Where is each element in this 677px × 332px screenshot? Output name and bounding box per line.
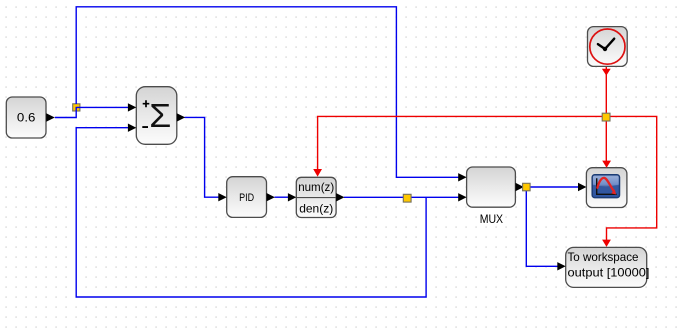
constant block 0.6 [6,97,46,138]
svg-text:den(z): den(z) [299,201,333,215]
PID input port arrow [218,193,226,201]
clock block [588,27,628,67]
num/den event input red arrow [313,169,322,177]
clock event output red arrow [602,69,611,76]
wire: num/den output to MUX input 2 [344,196,460,198]
wire: sum output to PID input [185,117,220,197]
MUX input 2 port arrow [458,193,466,201]
MUX block [467,167,516,226]
To workspace block [566,247,650,287]
num/den output port arrow [336,193,344,201]
wire: junction down then right to To workspace input [526,191,559,266]
wire: MUX output junction to scope input [530,186,580,188]
svg-text:0.6: 0.6 [17,111,36,125]
num/den input port arrow [288,193,296,201]
scope signal input port arrow [578,183,586,191]
MUX output port arrow [515,183,523,191]
split point junction (constant to sum / top wire) [73,104,80,111]
To workspace event input red arrow [602,240,611,247]
wire: red junction down to scope event input [605,121,607,162]
scope block [586,168,627,208]
svg-text:PID: PID [239,192,254,204]
wire: red junction left and down to num/den event input [318,116,603,169]
To workspace input port arrow [557,262,565,270]
wire: red junction right, down, left, down to To workspace event input [607,116,657,240]
output port arrow of constant [46,113,55,122]
wire: feedback loop from branch down, left, up to sum - input [76,128,426,297]
svg-text:num(z): num(z) [298,180,334,194]
PID block [227,177,267,218]
svg-text:MUX: MUX [480,212,503,226]
MUX input 1 port arrow [458,173,466,181]
sum + input port arrow [128,103,136,111]
junction at MUX output (scope / workspace split) [523,183,531,191]
svg-text:output [10000]: output [10000] [568,266,650,280]
PID output port arrow [267,193,275,201]
svg-text:Σ: Σ [149,97,171,134]
red junction (clock signal split) [602,113,610,121]
wire: clock output down to red junction [605,66,607,113]
junction on num/den to MUX line (feedback split) [403,194,411,202]
wire: constant 0.6 output to split point to sum + input [55,107,130,117]
summation block [136,87,177,145]
wire: PID output to num/den input [275,196,290,198]
wire: split point up, across top, down to MUX input 1 [76,7,459,178]
sum output port arrow [177,113,185,121]
discrete transfer function block num(z)/den(z) [296,177,336,217]
scope event input red arrow [602,161,611,168]
svg-text:To workspace: To workspace [568,250,639,264]
sum - input port arrow [128,124,136,132]
